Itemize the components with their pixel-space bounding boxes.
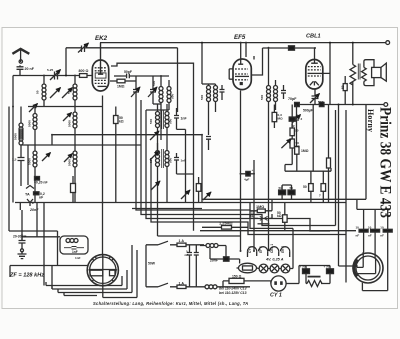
oscillator coil pair: [160, 76, 162, 87]
IF4 secondary coil: [275, 80, 277, 86]
transformer core: [358, 64, 360, 80]
variable capacitor 500pF below CBL1: [312, 89, 319, 105]
svg-text:kΩ: kΩ: [277, 214, 282, 218]
variable capacitor trim right: [294, 105, 299, 147]
capacitor C6: [174, 153, 193, 174]
svg-text:500: 500: [169, 158, 173, 163]
coil L7: [73, 151, 77, 167]
svg-text:bei 110-125V C13: bei 110-125V C13: [219, 291, 247, 295]
capacitor C18: [359, 229, 368, 232]
wire mid left: [28, 106, 102, 108]
speaker: [372, 67, 381, 77]
svg-text:2: 2: [301, 117, 303, 121]
IF2 core: [162, 149, 164, 168]
coil L4: [34, 107, 36, 114]
band switch drum circle: [87, 255, 118, 286]
trimmer L6: [63, 113, 72, 122]
IF trap box: [60, 236, 88, 254]
capacitor C10 70pF: [281, 85, 286, 99]
wire bus 208: [132, 208, 202, 210]
svg-text:1 A: 1 A: [179, 281, 185, 285]
wire drum left feed: [355, 265, 358, 268]
wire bus step 1: [136, 96, 293, 269]
electrolytic C28 50uF: [288, 190, 295, 195]
resistor R14: [321, 184, 326, 192]
trimmer extra: [181, 190, 190, 199]
svg-text:+: +: [281, 184, 283, 188]
svg-text:500: 500: [200, 95, 204, 100]
svg-text:20nF: 20nF: [29, 208, 39, 212]
resistor R13 1Mohm: [295, 146, 299, 154]
svg-text:5000: 5000: [68, 159, 72, 166]
spark gap: [260, 216, 268, 220]
trimmer capacitor osc2: [150, 90, 156, 93]
svg-text:CBL 1: CBL 1: [270, 244, 274, 253]
svg-text:1nF: 1nF: [181, 159, 187, 163]
svg-text:20nF: 20nF: [209, 259, 219, 263]
electrolytic C27 50uF: [279, 190, 286, 195]
terminal A top right: [386, 41, 390, 45]
wire EF5 bottom: [240, 91, 242, 111]
junction osc coil L2: [74, 75, 76, 77]
wire trimmer left leg: [66, 48, 82, 76]
svg-text:3µ: 3µ: [291, 124, 295, 128]
svg-text:20-30 nF: 20-30 nF: [13, 234, 26, 238]
wire zf line: [10, 266, 88, 278]
svg-text:+ 50: + 50: [324, 265, 330, 269]
coil L8 mains choke: [206, 244, 218, 248]
capacitor C25 block on line: [319, 102, 324, 106]
resistor R2 grid leak: [110, 80, 117, 82]
junction 4uF left: [240, 173, 242, 175]
svg-text:7: 7: [319, 194, 321, 198]
capacitor C2 50pF: [121, 74, 169, 79]
capacitor C17 trap: [64, 247, 84, 250]
wire osc col: [160, 110, 162, 140]
svg-text:70pF: 70pF: [288, 97, 297, 101]
IF4 primary coil: [268, 48, 270, 86]
svg-text:50: 50: [290, 186, 294, 190]
wire bus step 2: [141, 100, 336, 226]
wire bus step 3: [146, 110, 330, 231]
ground: [21, 249, 24, 252]
svg-text:EF5: EF5: [234, 34, 246, 41]
wire avc line: [52, 135, 202, 203]
wire EF5 top feeds: [241, 43, 246, 64]
IF2 primary coil: [157, 143, 159, 151]
junction cathode gnd: [102, 202, 104, 204]
trimmer IF2 bottom: [151, 181, 160, 190]
wire left drop: [12, 76, 14, 203]
capacitor C23 4uF electrolytic: [241, 173, 255, 175]
mains switch bottom: [146, 283, 177, 287]
resistor R6: [327, 158, 331, 168]
svg-text:TA: TA: [25, 193, 30, 197]
svg-text:1MΩ: 1MΩ: [117, 85, 125, 89]
IF3 primary coil left: [208, 84, 210, 86]
svg-text:1nF: 1nF: [181, 117, 187, 121]
wire EK2 outputs right: [111, 63, 194, 231]
wire IF2 bottoms: [158, 180, 168, 222]
dial lamp 1: [259, 264, 268, 273]
svg-text:10: 10: [368, 225, 372, 229]
resistor R16 50k: [290, 128, 294, 136]
wire bottom right links: [299, 266, 330, 284]
svg-text:nF: nF: [380, 233, 384, 237]
wire antenna bus: [13, 75, 92, 77]
junction zf wire: [43, 265, 45, 267]
svg-text:+: +: [252, 168, 254, 172]
capacitor C14: [194, 245, 199, 287]
tube EK2 envelope: [92, 60, 108, 91]
svg-text:500: 500: [260, 95, 264, 100]
svg-text:1MΩ: 1MΩ: [301, 149, 309, 153]
svg-text:CY 1: CY 1: [270, 293, 282, 299]
svg-text:500: 500: [152, 81, 156, 86]
wire IF3 bottom: [209, 96, 223, 135]
svg-text:+ 50: + 50: [300, 265, 306, 269]
drum quadrant boxes: [90, 270, 103, 276]
coil L6: [74, 107, 76, 113]
wire bus step 4: [151, 160, 346, 235]
svg-text:10: 10: [380, 225, 384, 229]
trimmer L4: [29, 104, 38, 113]
svg-text:500: 500: [149, 158, 153, 163]
svg-text:ZF = 128 kHz: ZF = 128 kHz: [9, 272, 44, 278]
capacitor C16: [19, 234, 26, 249]
trimmer capacitor antenna: [55, 72, 58, 80]
field coil resistor zigzag: [350, 43, 356, 105]
svg-text:50: 50: [303, 185, 307, 189]
wire EF5 anode right: [251, 48, 315, 75]
resistor R15 0.3M: [272, 112, 277, 121]
svg-text:50: 50: [36, 90, 40, 94]
IF2 secondary coil: [166, 143, 168, 151]
resistor R1 800ohm: [80, 74, 88, 78]
wire CBL1 grid top: [314, 48, 316, 63]
trimmer L5: [42, 153, 51, 162]
output transformer secondary zigzag: [362, 67, 367, 81]
svg-text:20 nF: 20 nF: [25, 67, 35, 71]
svg-text:500: 500: [169, 119, 173, 124]
resistor R5: [343, 84, 347, 91]
wire power bus: [200, 230, 356, 232]
svg-text:5000: 5000: [28, 158, 32, 165]
antenna: [12, 49, 29, 54]
capacitor C26 0.1 block: [289, 117, 295, 121]
svg-text:4µF: 4µF: [244, 178, 250, 182]
mains switch top: [146, 241, 177, 245]
capacitor C24 block on line: [295, 102, 300, 106]
wire y171: [285, 168, 331, 171]
resistor R9 1Mohm: [257, 209, 265, 213]
capacitor C7: [220, 85, 225, 96]
wire right drops: [336, 105, 367, 283]
junction CBL1 grid: [314, 47, 316, 49]
IF1 primary coil: [157, 104, 159, 112]
svg-text:500: 500: [149, 119, 153, 124]
trimmer IF2: [150, 151, 159, 160]
resistor R11 150ohm: [229, 278, 244, 283]
junction heater rail a: [240, 250, 242, 252]
resistor R4 50k: [114, 116, 119, 124]
resistor R10: [283, 215, 288, 223]
trimmer L7: [64, 154, 73, 163]
resistor R3: [71, 184, 76, 193]
capacitor C8 on avc: [206, 137, 211, 151]
coil L5: [33, 151, 37, 167]
junction avc right: [201, 134, 203, 136]
wire wraps below drum: [103, 250, 137, 298]
svg-text:EK 2: EK 2: [281, 246, 285, 253]
scattered value labels: [12, 68, 321, 260]
heater chain bumps: [248, 247, 290, 252]
svg-text:5-25: 5-25: [47, 68, 53, 72]
svg-text:5000: 5000: [28, 120, 32, 127]
svg-text:CY 1: CY 1: [248, 246, 252, 253]
svg-text:10: 10: [356, 225, 360, 229]
wire jack drops: [22, 203, 52, 290]
wire net around spark gap: [250, 199, 272, 218]
svg-text:50: 50: [67, 90, 71, 94]
junction L4 top: [34, 106, 36, 108]
terminal C right: [384, 103, 388, 107]
capacitor C9 coupling (block): [289, 46, 295, 50]
junction IF4 top: [268, 47, 270, 49]
IF1 secondary coil: [166, 104, 168, 112]
wire IF1 bottom: [158, 135, 168, 150]
svg-text:Prinz 38 GW E 433: Prinz 38 GW E 433: [377, 107, 394, 218]
capacitor C20: [383, 229, 392, 232]
wire right col drops: [241, 56, 255, 251]
svg-text:50: 50: [341, 85, 345, 89]
svg-text:1,5: 1,5: [12, 158, 17, 162]
svg-text:5000: 5000: [14, 133, 18, 140]
IF1 core: [162, 110, 164, 129]
wire electrolytic top: [282, 184, 291, 186]
wire drum bottom loop: [362, 232, 387, 291]
phone jack TA cap: [19, 203, 21, 211]
wire top bus: [100, 42, 386, 44]
capacitor C13 5nF: [187, 245, 192, 287]
wire EF5 left IF1: [201, 43, 203, 84]
svg-text:nF: nF: [368, 233, 372, 237]
trimmer IF1: [150, 131, 159, 140]
junction L6 top: [74, 106, 76, 108]
drum inner hook: [357, 252, 376, 274]
wire bus 199: [202, 198, 366, 200]
svg-text:1MΩ: 1MΩ: [256, 205, 264, 209]
fuse bottom: [177, 285, 186, 288]
junction antenna coil L1: [43, 75, 45, 77]
svg-text:EK2: EK2: [95, 35, 108, 42]
coil L9: [205, 285, 217, 289]
svg-text:1nF: 1nF: [75, 256, 81, 260]
svg-text:kΩ: kΩ: [296, 144, 301, 148]
wire CY1 leads: [286, 283, 299, 285]
variable arrows L1 L2: [50, 88, 61, 99]
drum cross: [90, 255, 117, 286]
resistor R12 zigzag: [307, 281, 322, 287]
wire left box frame: [9, 107, 58, 266]
svg-text:4V. 0,25 A: 4V. 0,25 A: [265, 257, 284, 261]
svg-text:≈0,20 nF: ≈0,20 nF: [34, 181, 48, 185]
svg-text:nF: nF: [39, 196, 43, 200]
junction avc left: [51, 134, 53, 136]
svg-text:MΩ: MΩ: [278, 116, 284, 120]
mains cable drum: [353, 253, 383, 283]
wire x313: [312, 105, 314, 172]
IF3 secondary coil: [215, 84, 217, 86]
electrolytic C22: [327, 269, 334, 274]
potentiometer 50k: [290, 139, 294, 148]
wire gnd bus left: [22, 236, 60, 238]
capacitor C4 0.2nF: [35, 177, 40, 181]
wire drum top feed: [102, 254, 104, 256]
capacitor C5 1nF: [174, 108, 186, 203]
resistor R7: [309, 184, 314, 192]
svg-text:500: 500: [171, 94, 175, 99]
junction 4uF right: [253, 173, 255, 175]
resistor R17: [198, 177, 200, 203]
capacitor C1 20nF antenna: [17, 65, 24, 75]
wire trimmer to grid bus: [85, 48, 178, 112]
fuse 1A: [177, 243, 186, 246]
wire into switch drum: [43, 203, 45, 286]
junction trimmer T1: [56, 75, 58, 77]
junction heater rail b: [253, 250, 255, 252]
capacitor C19: [371, 229, 380, 232]
coil L3: [20, 107, 22, 124]
svg-text:1 A: 1 A: [179, 239, 185, 243]
resistor R8 1.25Mohm: [222, 226, 232, 230]
svg-text:150 Ω: 150 Ω: [232, 274, 242, 278]
dial lamp 2: [270, 264, 279, 273]
svg-text:Schalterstellung: Lang, Reihe: Schalterstellung: Lang, Reihenfolge: Kur…: [93, 301, 248, 306]
wire TA drop: [27, 145, 29, 185]
tube EF5 envelope: [233, 59, 251, 90]
svg-text:CBL1: CBL1: [306, 34, 321, 40]
svg-text:5000: 5000: [68, 120, 72, 127]
coil L1 ant: [43, 76, 45, 85]
drum ticks: [88, 254, 117, 281]
svg-text:500: 500: [318, 101, 324, 105]
svg-text:kΩ: kΩ: [119, 120, 124, 124]
junction osc coil top: [160, 75, 162, 77]
svg-text:1nF: 1nF: [72, 250, 78, 254]
wire lamp feed: [239, 259, 241, 264]
band switch TA: [26, 186, 34, 189]
wire avc return: [21, 135, 141, 145]
svg-text:1,25MΩ: 1,25MΩ: [219, 222, 233, 226]
coil L10 trap: [66, 239, 78, 243]
svg-text:kΩ: kΩ: [250, 214, 255, 218]
svg-text:50: 50: [295, 129, 299, 133]
svg-text:EF 5: EF 5: [259, 246, 263, 253]
wire lamp links: [268, 268, 293, 270]
trimmer capacitor osc top: [82, 46, 85, 53]
capacitor C15 20nF block: [224, 257, 230, 261]
svg-text:Horny: Horny: [366, 109, 375, 132]
junction left rail: [12, 106, 14, 108]
svg-text:nF: nF: [185, 253, 189, 257]
ballast lamp oval: [239, 263, 257, 273]
wire bus step 5: [158, 222, 241, 236]
svg-text:500µF: 500µF: [303, 109, 313, 113]
bar over R12: [308, 276, 321, 278]
wire long bus gnd: [15, 202, 346, 204]
capacitor C3: [18, 158, 25, 187]
svg-text:50W: 50W: [148, 262, 156, 266]
mains input pair: [145, 245, 147, 287]
svg-text:800 Ω: 800 Ω: [79, 69, 89, 73]
wire EK2 cathode bottom: [102, 96, 104, 255]
speaker loop wire: [364, 60, 374, 86]
svg-text:50pF: 50pF: [124, 70, 132, 74]
tube CBL1 envelope: [306, 60, 323, 90]
wire CBL1 anode right: [323, 43, 330, 105]
wire bottom C line: [295, 104, 384, 106]
trimmer capacitor osc1: [133, 90, 139, 93]
svg-text:nF: nF: [356, 233, 360, 237]
junction dots line C: [352, 104, 354, 106]
trimmer extra2: [203, 192, 211, 200]
wire right caps row: [364, 209, 388, 257]
coil L2 osc: [74, 76, 76, 85]
dial lamp 3: [281, 264, 290, 273]
electrolytic C21: [303, 269, 310, 274]
tube CY1: [271, 276, 286, 291]
